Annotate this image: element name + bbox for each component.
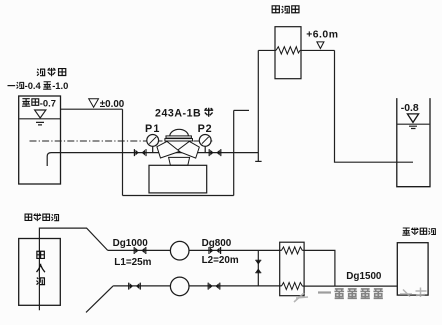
label 进水位 [37, 68, 66, 76]
svg-text:-1.0: -1.0 [52, 80, 68, 91]
discharge riser pipe [257, 50, 259, 161]
valve V6 [129, 283, 141, 290]
watermark [294, 288, 427, 303]
pipe into E1 [258, 49, 276, 51]
label 一般-0.4至-1.0 [8, 80, 69, 91]
suction pipe from T1 to pump [47, 153, 258, 166]
drain culvert diagonal [86, 286, 113, 313]
valve V1 (suction) [134, 149, 146, 156]
label 排水暗沟 [402, 228, 436, 236]
label 散汽器 [272, 6, 299, 13]
E2 lower coil [282, 283, 303, 290]
svg-text:L2=20m: L2=20m [202, 255, 239, 266]
valve V4 [209, 247, 221, 254]
level mark -0.8 [401, 103, 419, 129]
heat exchanger E1 [275, 27, 301, 79]
svg-text:-0.7: -0.7 [40, 97, 56, 108]
level mark ±0.00 [89, 99, 99, 108]
level mark +6.0m [306, 30, 338, 49]
svg-text:-0.4: -0.4 [25, 80, 42, 91]
tank T1 inlet wet well [19, 96, 61, 184]
valve V7 [208, 283, 220, 290]
label 正常-0.7 [22, 97, 56, 108]
water level symbol T1 [35, 110, 46, 118]
pressure gauge P2 [198, 123, 213, 153]
valve V5 (vertical) [255, 260, 261, 272]
label 243A-1B泵 [155, 108, 213, 120]
svg-text:-0.8: -0.8 [401, 103, 419, 114]
pump U1 body [157, 129, 199, 165]
tank T4 drain pool [397, 243, 428, 295]
pipe Dg1000 (upper test line) [108, 249, 282, 251]
label 吸水暗沟 [25, 213, 59, 221]
pipe out of E1 [300, 49, 335, 51]
riser bottom tick [255, 160, 261, 162]
pump pit right wall [233, 110, 235, 195]
pump pit floor [123, 195, 234, 197]
pipe Dg1500 to drain tank [302, 285, 397, 287]
pump base [149, 165, 207, 193]
E1 coil zigzag [276, 47, 300, 54]
svg-text:±0.00: ±0.00 [100, 99, 125, 110]
E2 upper coil [282, 247, 303, 254]
cross-connection pipe [257, 250, 259, 286]
svg-text:P1: P1 [145, 123, 161, 135]
heat exchanger E2 [280, 242, 304, 296]
pressure gauge P1 [145, 123, 161, 153]
tank T2 discharge well [397, 98, 430, 187]
label 吸入池 (vertical) [36, 251, 45, 284]
water level line T1 [19, 118, 60, 120]
svg-text:Dg800: Dg800 [202, 238, 232, 249]
flow meter M1 [170, 241, 189, 260]
pit wall top tick [234, 109, 249, 111]
svg-text:Dg1000: Dg1000 [113, 238, 149, 249]
suction culvert line [39, 228, 107, 310]
tank T3 suction pool [19, 239, 61, 306]
valve V3 [134, 247, 146, 254]
flow meter M2 [170, 277, 189, 296]
pump pit left wall [122, 109, 124, 195]
svg-text:L1=25m: L1=25m [114, 257, 151, 268]
downcomer pipe to T2 [335, 50, 414, 162]
svg-text:P2: P2 [198, 123, 213, 135]
svg-text:243A-1B: 243A-1B [155, 108, 201, 120]
valve V2 (discharge) [209, 149, 221, 156]
return loop pipe right of E2 [302, 250, 335, 286]
pump centerline (dash-dot) [30, 140, 213, 142]
svg-text:Dg1500: Dg1500 [346, 271, 382, 282]
water level line T2 [397, 123, 429, 125]
pipe lower test line [113, 285, 281, 287]
ground level line 0.00 [61, 108, 123, 110]
svg-text:+6.0m: +6.0m [306, 30, 338, 41]
